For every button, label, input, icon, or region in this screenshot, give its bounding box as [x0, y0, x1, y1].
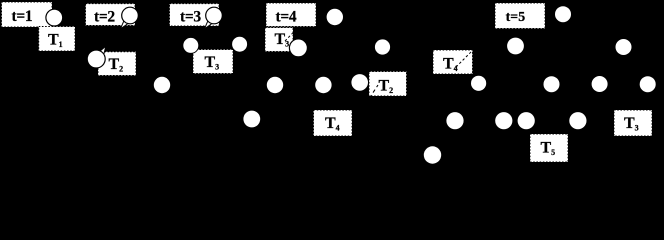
node circle row4 c: [495, 112, 512, 129]
tree snapshots diagram, black background: [0, 0, 664, 176]
node circle row4 d: [518, 112, 535, 129]
node circle under t=4 (on T3 box): [289, 39, 307, 57]
svg-text:t=2: t=2: [94, 9, 115, 26]
label box T2 (first): [98, 52, 136, 76]
node circle (t=1): [46, 9, 63, 26]
node circle above T2 box: [375, 39, 390, 54]
node circle right of t=4: [327, 9, 343, 25]
node circle callout (t=3): [204, 7, 222, 29]
node circle row3 c: [315, 77, 331, 93]
node circle callout (t=2): [120, 7, 138, 29]
leader line of T2 label (lower dashes): [370, 85, 379, 98]
node circle row4 e: [569, 112, 586, 129]
label box t=2: [86, 4, 136, 26]
node circle callout (at T2 box): [87, 46, 106, 68]
label box T2 (second): [369, 65, 407, 98]
node circle left of T2 box: [351, 74, 368, 91]
svg-text:t=4: t=4: [276, 9, 297, 26]
label box t=1: [2, 2, 53, 27]
svg-text:t=1: t=1: [12, 8, 33, 25]
node circle below T4 box: [471, 76, 486, 91]
callout tail: [120, 21, 128, 29]
node circle right on T3 box: [232, 36, 248, 52]
label box T3 (second, under t=4): [265, 27, 299, 52]
node circle row3 f: [640, 76, 656, 92]
node circle row3 b: [267, 77, 283, 93]
label box t=3: [170, 4, 220, 26]
svg-text:t=3: t=3: [180, 8, 201, 25]
label box T5: [530, 134, 568, 162]
node circle right of t=5: [555, 6, 571, 22]
node circle below t=5: [507, 38, 524, 55]
node circle left on T3 box: [183, 37, 199, 53]
node circle row3 d: [544, 76, 560, 92]
node circle row4 a: [243, 111, 260, 128]
label box T4 (second): [314, 110, 353, 136]
label box t=4: [266, 3, 316, 27]
node circle top right: [616, 39, 632, 55]
leader line of T3 label: [285, 27, 299, 42]
node circle bottom: [424, 146, 441, 163]
leader line of T2 label (upper dash): [386, 65, 390, 71]
callout tail: [99, 46, 106, 56]
svg-text:t=5: t=5: [506, 9, 526, 24]
label box t=5: [495, 3, 545, 29]
label box T3 (first): [193, 50, 233, 74]
node circle row3 e: [592, 76, 608, 92]
label box T3 (third): [614, 110, 652, 136]
leader line of T4 label: [456, 51, 473, 68]
label box T4 (first, with leader): [433, 50, 473, 74]
callout tail: [204, 21, 212, 29]
node circle row4 b: [446, 112, 463, 129]
node circle row3 a: [154, 77, 170, 93]
label box T1: [39, 27, 75, 52]
